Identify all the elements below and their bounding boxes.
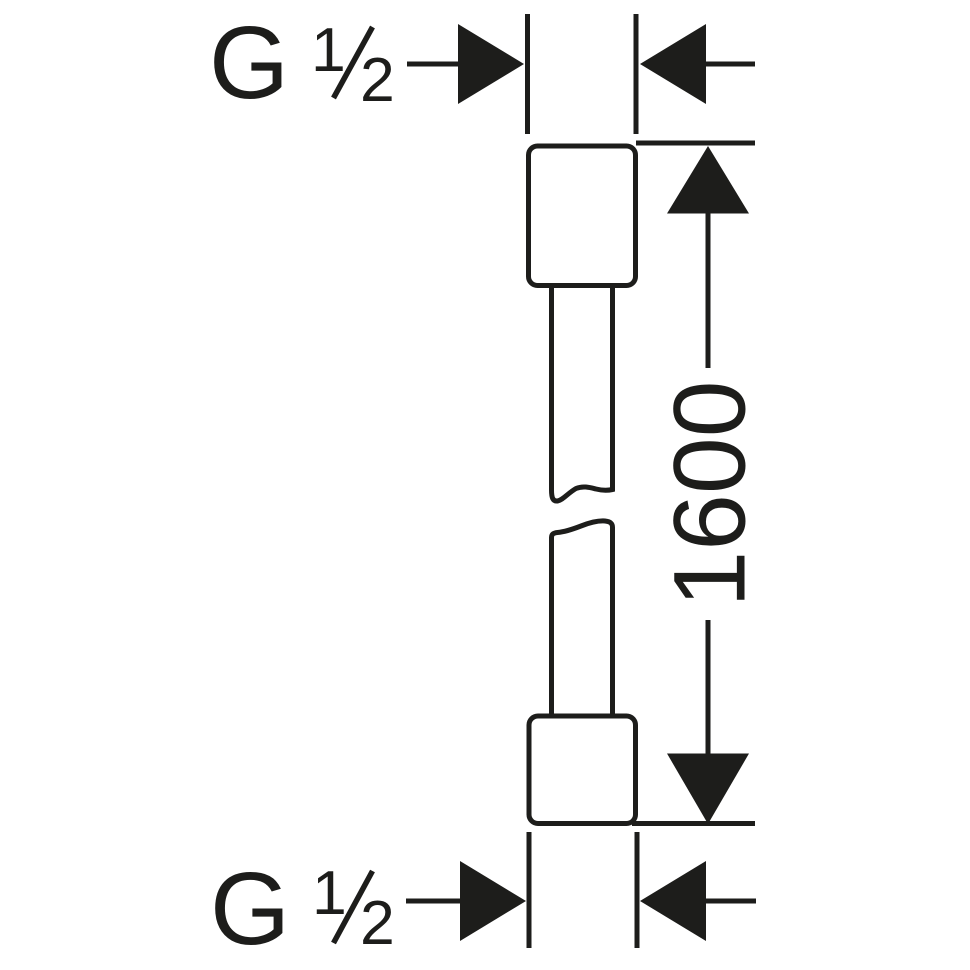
svg-text:1600: 1600 (653, 381, 767, 608)
svg-text:G: G (209, 5, 289, 120)
svg-text:G: G (210, 851, 290, 966)
svg-text:1: 1 (312, 858, 347, 928)
svg-text:2: 2 (360, 45, 395, 115)
svg-text:1: 1 (311, 15, 346, 85)
svg-text:2: 2 (360, 888, 395, 958)
